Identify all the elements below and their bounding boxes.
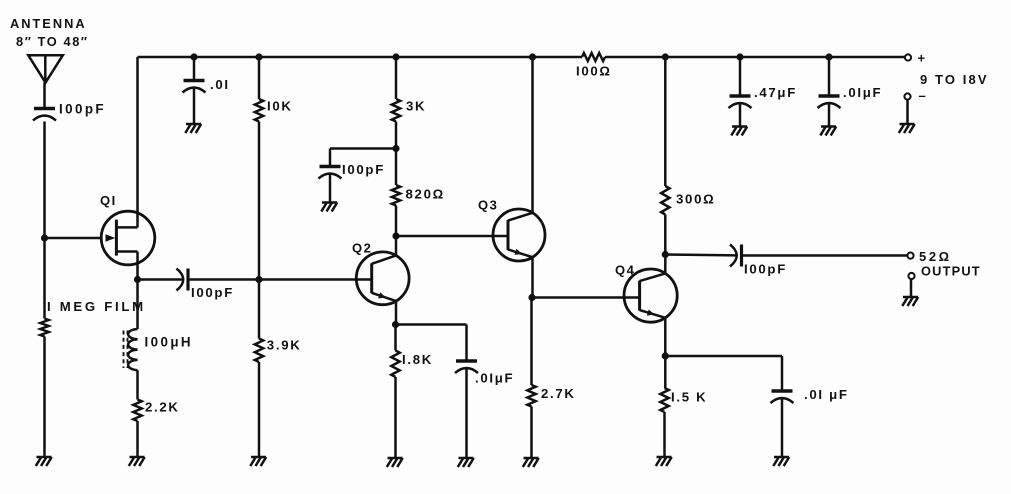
svg-text:QI: QI bbox=[100, 193, 117, 208]
node Q1 source junction bbox=[134, 276, 141, 283]
wire 1.8K to ground bbox=[394, 377, 397, 458]
wire junction to Q3 base bbox=[396, 235, 493, 238]
ground below 2.7K bbox=[523, 458, 539, 467]
node rail junction 10K bbox=[255, 53, 262, 60]
wire .01 cap to ground bbox=[193, 87, 196, 124]
node rail junction .47uF bbox=[736, 53, 743, 60]
wire Q3 emitter junction to Q4 base bbox=[532, 296, 625, 299]
ground below .01 cap bbox=[185, 124, 201, 133]
svg-text:9 TO I8V: 9 TO I8V bbox=[920, 72, 989, 87]
ground below .01uF right bbox=[773, 457, 789, 466]
wire coupling cap to Q2 base bbox=[189, 278, 357, 281]
wire Q3 emitter down bbox=[531, 257, 534, 297]
wire output cap to terminal bbox=[743, 254, 908, 257]
wire junction to 1.5K bbox=[664, 356, 667, 388]
antenna symbol bbox=[28, 55, 63, 82]
svg-text:.0IμF: .0IμF bbox=[843, 85, 882, 100]
wire 300 ohm to collector node bbox=[664, 215, 667, 255]
capacitor .01 bbox=[184, 79, 205, 82]
svg-text:I00pF: I00pF bbox=[191, 285, 234, 300]
transistor Q2 bbox=[356, 252, 409, 305]
capacitor 100pF bypass bbox=[320, 165, 341, 168]
svg-text:820Ω: 820Ω bbox=[406, 187, 445, 202]
svg-text:+: + bbox=[918, 51, 926, 66]
svg-text:I00μH: I00μH bbox=[145, 335, 193, 350]
svg-text:2.7K: 2.7K bbox=[541, 386, 576, 401]
wire 10K down to junction bbox=[258, 122, 261, 280]
svg-text:Q4: Q4 bbox=[615, 263, 635, 278]
svg-text:300Ω: 300Ω bbox=[676, 192, 715, 207]
ground below .01uF supply bbox=[820, 127, 836, 136]
svg-text:I00Ω: I00Ω bbox=[576, 64, 612, 79]
wire 1meg to ground bbox=[43, 337, 46, 458]
wire antenna to capacitor bbox=[43, 83, 46, 108]
wire Q2 collector to junction bbox=[395, 236, 398, 255]
svg-text:I.8K: I.8K bbox=[402, 352, 433, 367]
ground below 1 MEG bbox=[36, 457, 52, 466]
wire cap to ground bbox=[781, 398, 784, 458]
wire minus terminal to ground bbox=[906, 100, 909, 124]
node Q4 emitter junction bbox=[662, 352, 669, 359]
wire junction to 3.9K bbox=[258, 280, 261, 339]
resistor 3.9K bbox=[255, 339, 263, 363]
wire junction down to 2.7K bbox=[530, 298, 533, 386]
wire Q1 source junction to coupling cap bbox=[138, 278, 183, 281]
svg-text:–: – bbox=[919, 88, 926, 103]
ground below 2.2K bbox=[129, 457, 145, 466]
resistor 2.2K bbox=[133, 400, 141, 422]
wire output return to ground bbox=[910, 279, 913, 297]
terminal output 52 ohm bbox=[907, 253, 913, 259]
svg-text:I0K: I0K bbox=[267, 99, 293, 114]
wire rail to Q3 collector bbox=[531, 57, 534, 214]
capacitor .01uF Q2 emitter bypass bbox=[456, 359, 477, 362]
capacitor 100pF interstage bbox=[177, 269, 184, 291]
svg-text:I.5 K: I.5 K bbox=[671, 390, 707, 405]
svg-text:.0IμF: .0IμF bbox=[475, 371, 514, 386]
transistor Q3 bbox=[493, 209, 545, 261]
wire gate node to Q1 gate bbox=[45, 237, 102, 240]
resistor 1 MEG FILM bbox=[40, 319, 48, 337]
terminal supply plus bbox=[905, 54, 911, 60]
wire rail to 10K bbox=[258, 57, 261, 99]
node gate junction bbox=[41, 234, 48, 241]
wire capacitor to gate node bbox=[43, 122, 46, 319]
resistor 1.5K bbox=[660, 388, 668, 412]
node 10K/3.9K/coupling junction bbox=[255, 276, 262, 283]
resistor 10K bbox=[255, 99, 263, 122]
svg-text:I00pF: I00pF bbox=[744, 262, 787, 277]
node rail junction 3K bbox=[392, 53, 399, 60]
ground below 3.9K bbox=[250, 457, 266, 466]
capacitor 100pF output bbox=[730, 245, 737, 267]
node rail junction Q3 collector bbox=[529, 53, 536, 60]
resistor 2.7K bbox=[527, 385, 535, 407]
wire 2.7K to ground bbox=[530, 407, 533, 459]
transistor Q4 bbox=[624, 269, 677, 322]
wire junction to bypass cap bbox=[330, 147, 396, 150]
node Q2 collector / Q3 base junction bbox=[392, 232, 399, 239]
resistor 100 ohm (series in supply rail) bbox=[582, 53, 605, 61]
svg-text:Q2: Q2 bbox=[352, 241, 372, 256]
wire rail to 3K bbox=[395, 57, 398, 99]
wire 820 to collector node bbox=[395, 206, 398, 237]
ground below bypass cap bbox=[321, 203, 337, 212]
svg-text:3K: 3K bbox=[406, 99, 426, 114]
wire 2.2K to ground bbox=[136, 421, 139, 457]
transistor Q1 JFET bbox=[101, 211, 155, 265]
inductor 100uH bbox=[124, 329, 138, 370]
wire emitter junction to .01uF cap bbox=[396, 323, 467, 326]
node rail junction .01uF supply bbox=[825, 53, 832, 60]
wire bypass cap to ground bbox=[329, 173, 332, 203]
terminal supply minus bbox=[904, 93, 910, 99]
svg-text:I MEG FILM: I MEG FILM bbox=[47, 299, 146, 314]
wire Q4 collector node to output cap bbox=[665, 253, 736, 256]
wire top supply rail left segment bbox=[138, 56, 583, 59]
svg-text:I00pF: I00pF bbox=[342, 162, 385, 177]
wire collector node to Q4 bbox=[664, 255, 667, 274]
node rail junction .01 cap bbox=[190, 53, 197, 60]
wire rail to .01 cap bbox=[193, 57, 196, 80]
ground below 1.5K bbox=[656, 457, 672, 466]
svg-text:52Ω: 52Ω bbox=[919, 249, 952, 264]
svg-text:.0I μF: .0I μF bbox=[804, 387, 849, 402]
wire Q4 emitter down bbox=[664, 318, 667, 356]
wire .47uF to ground bbox=[739, 103, 742, 127]
wire 3K to junction bbox=[395, 122, 398, 149]
wire cap to ground bbox=[465, 368, 468, 459]
wire Q1 drain up to rail bbox=[136, 57, 139, 227]
wire inductor to 2.2K bbox=[136, 370, 139, 399]
wire .01uF to ground bbox=[828, 103, 831, 127]
wire rail to .47uF bbox=[739, 57, 742, 96]
wire rail to .01uF bbox=[828, 57, 831, 96]
capacitor .01uF Q4 emitter bypass bbox=[772, 389, 793, 392]
resistor 1.8K bbox=[394, 325, 397, 351]
svg-text:ANTENNA: ANTENNA bbox=[10, 16, 87, 31]
resistor 820 ohm bbox=[395, 149, 398, 186]
wire top supply rail right segment bbox=[605, 56, 905, 59]
node Q4 collector junction bbox=[662, 251, 669, 258]
svg-text:I00pF: I00pF bbox=[59, 102, 106, 117]
wire 1.5K to ground bbox=[663, 412, 666, 457]
wire 3.9K to ground bbox=[258, 362, 261, 457]
node Q2 emitter junction bbox=[392, 321, 399, 328]
node rail junction Q4 bbox=[662, 53, 669, 60]
svg-text:.47μF: .47μF bbox=[754, 85, 797, 100]
resistor 300 ohm bbox=[661, 186, 669, 215]
terminal output return bbox=[908, 273, 914, 279]
svg-text:3.9K: 3.9K bbox=[267, 338, 302, 353]
capacitor .47uF bbox=[730, 94, 751, 97]
resistor 3K bbox=[392, 99, 400, 122]
ground output return bbox=[902, 297, 918, 306]
svg-text:8″ TO 48″: 8″ TO 48″ bbox=[16, 34, 89, 49]
svg-text:.0I: .0I bbox=[210, 77, 230, 92]
wire rail to 300 ohm bbox=[664, 57, 667, 186]
wire Q1 source down bbox=[136, 252, 139, 330]
ground below .01uF bbox=[458, 458, 474, 467]
ground below 1.8K bbox=[387, 458, 403, 467]
wire Q2 emitter down bbox=[395, 301, 398, 324]
svg-text:2.2K: 2.2K bbox=[145, 400, 180, 415]
node Q3 emitter junction bbox=[528, 294, 535, 301]
ground supply minus bbox=[899, 124, 915, 133]
capacitor .01uF supply bbox=[819, 94, 840, 97]
svg-text:OUTPUT: OUTPUT bbox=[921, 264, 981, 279]
capacitor 100pF antenna coupling bbox=[34, 107, 55, 110]
svg-text:Q3: Q3 bbox=[478, 198, 498, 213]
ground below .47uF bbox=[731, 127, 747, 136]
wire Q4 emitter junction to .01uF bbox=[665, 355, 782, 358]
node 3K/820 junction bbox=[392, 145, 399, 152]
